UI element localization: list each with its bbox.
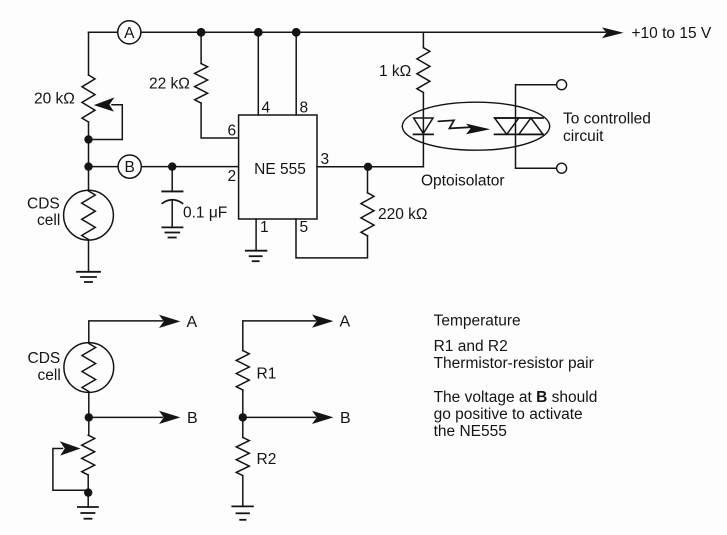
junction: wiper-to-bottom dot [84,488,92,496]
svg-text:A: A [340,314,351,331]
coupling arrow of optoisolator [439,120,470,128]
ground: below CDS cell [77,272,100,282]
wire: pin 4 from rail [257,32,259,115]
ground: capacitor [162,227,182,237]
arrowhead A (R1R2 circuit) [312,315,333,328]
LED of optoisolator [414,118,433,134]
wire: pot bottom to ground [87,475,89,507]
wire: to node A arrow [89,321,163,343]
svg-text:2: 2 [228,168,237,185]
wire: node B to arrow [89,416,163,418]
junction: rail dot pin 4 [254,28,263,37]
svg-text:Optoisolator: Optoisolator [421,173,505,190]
svg-text:the NE555: the NE555 [434,423,507,440]
wire: triac vertical to upper terminal [516,85,557,135]
wire: node B horizontal to NE555 pin 2 [89,166,239,168]
wire: pin 3 output to LED branch [317,166,423,168]
op IC NE555 box U1 [239,115,317,219]
junction: node B dot [84,162,92,170]
junction: node B dot (R1R2) [239,413,247,421]
svg-text:B: B [187,410,198,427]
photoresistor CDS cell zigzag (lower) [82,344,96,392]
svg-text:cell: cell [38,367,61,384]
terminal: upper output circle [557,80,567,90]
optoisolator ellipse [402,102,549,150]
svg-text:5: 5 [300,219,309,236]
wire: potentiometer wiper (arm from right) [90,105,122,140]
svg-text:+10 to 15 V: +10 to 15 V [632,25,712,42]
wire: wiper arm (from left) [53,449,87,491]
svg-text:CDS: CDS [27,196,60,213]
wire: node B to arrow (R1R2) [243,416,316,418]
resistor R1 [236,351,249,391]
arrowhead B (R1R2 circuit) [312,411,333,424]
svg-text:R1 and R2: R1 and R2 [434,338,508,355]
svg-text:0.1 μF: 0.1 μF [183,205,227,222]
junction: capacitor tap dot [168,162,176,170]
wire: R1 to node B junction [242,390,244,437]
wire: 22k to NE555 pin 6 [201,103,239,138]
svg-text:To controlled: To controlled [563,111,651,128]
arrowhead B (lower CDS circuit) [159,411,180,424]
resistor 22 kOhm [195,64,208,104]
photoresistor CDS cell circle (lower) [64,343,114,393]
wire: pin 5 loop to 220k bottom [296,219,368,258]
svg-text:4: 4 [262,100,271,117]
wire: left branch vertical from rail to potentiometer [88,32,90,75]
wire: +V top rail [89,31,606,33]
svg-text:6: 6 [228,123,237,140]
wire: triac bottom to lower terminal [516,134,557,168]
junction: wiper tap dot [84,135,92,143]
junction: node B dot (lower CDS circuit) [85,413,93,421]
potentiometer wiper arrowhead [94,97,115,111]
svg-text:R2: R2 [257,451,277,468]
wire: CDS cell to ground [88,240,90,272]
svg-text:20 kΩ: 20 kΩ [34,91,75,108]
svg-text:1 kΩ: 1 kΩ [379,63,411,80]
resistor 1 kOhm [417,48,430,93]
arrowhead: +V rail [602,27,624,38]
arrowhead A (lower CDS circuit) [159,315,180,328]
node B circle [118,155,141,178]
wire: pin 8 from rail [295,32,297,115]
wire: to node A arrow (R1R2) [243,321,316,351]
svg-text:circuit: circuit [563,128,604,145]
svg-text:NE 555: NE 555 [254,161,306,178]
wire: CDS bottom to node B junction [88,392,90,435]
svg-text:Thermistor-resistor pair: Thermistor-resistor pair [434,355,594,372]
ground: NE555 pin 1 [246,251,267,262]
resistor R2 [236,437,249,475]
svg-text:CDS: CDS [28,350,61,367]
svg-text:go positive to activate: go positive to activate [434,406,583,423]
svg-text:8: 8 [300,100,309,117]
junction: rail dot pin 8 [292,28,301,37]
wire: rail to 1k [422,32,424,47]
capacitor C 0.1 uF [171,167,173,192]
junction: rail dot at 22k [197,28,206,37]
wire: R2 to ground [242,476,244,507]
svg-text:3: 3 [321,151,330,168]
svg-text:1: 1 [260,219,269,236]
svg-text:R1: R1 [257,366,277,383]
svg-text:22 kΩ: 22 kΩ [149,76,190,93]
triac of optoisolator [495,117,543,119]
wire: pin 1 to ground [255,219,257,251]
svg-text:B: B [125,159,135,176]
resistor potentiometer body (lower) [82,435,95,475]
wire: rail to 22k resistor [200,32,202,63]
svg-text:A: A [124,25,135,42]
terminal: lower output circle [557,163,567,173]
wire: output node down to 220k [367,167,369,193]
svg-text:B: B [340,410,351,427]
photoresistor CDS cell zigzag [82,191,96,240]
photoresistor CDS cell circle [64,190,114,240]
wire: 1k through LED to output node [422,93,424,167]
wire: pot bottom to node B vertical [88,122,90,191]
ground: lower CDS circuit [78,507,98,519]
svg-text:A: A [187,314,198,331]
svg-text:220 kΩ: 220 kΩ [378,206,428,223]
svg-text:The voltage at B should: The voltage at B should [434,389,598,406]
junction: output node dot [364,163,372,171]
resistor 20 kOhm potentiometer body [82,75,95,122]
resistor 220 kOhm [361,193,374,236]
svg-text:Temperature: Temperature [434,313,521,330]
potentiometer wiper arrowhead (lower) [60,441,81,455]
ground: R1R2 circuit [232,506,253,519]
svg-text:cell: cell [37,212,60,229]
node A circle [118,21,141,44]
